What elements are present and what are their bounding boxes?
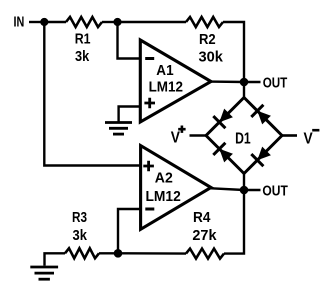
wire R4 up right rail to OUT2 (224, 190, 244, 254)
diode D1b (V- to top vertex) (244, 98, 282, 136)
wire R3 to ground (45, 253, 66, 265)
svg-text:OUT: OUT (263, 75, 288, 91)
svg-text:3k: 3k (73, 228, 88, 244)
wire node A to R1 (44, 21, 66, 23)
resistor R3 (65, 248, 99, 258)
A2 non-inverting (plus) sign (143, 161, 154, 172)
wire A2 inverting input to node C (118, 209, 141, 253)
svg-text:R1: R1 (75, 32, 91, 48)
diode D1d (V- to bottom vertex) (244, 136, 282, 174)
svg-text:R3: R3 (72, 210, 87, 226)
svg-text:IN: IN (14, 15, 25, 31)
wire node B down to A1 inverting input (118, 22, 141, 59)
wire A2 output to node OUT2 (209, 188, 244, 190)
svg-text:LM12: LM12 (149, 79, 183, 95)
resistor R1 (66, 17, 102, 27)
node B: summing junction (113, 18, 121, 26)
svg-text:V: V (304, 130, 313, 147)
wire bridge left vertex to V+ terminal (190, 134, 207, 137)
A2 inverting (minus) sign (145, 208, 154, 211)
svg-text:27k: 27k (192, 228, 217, 244)
node A: input node (40, 18, 48, 26)
wire node B to R2 (118, 21, 187, 23)
node OUT2: lower output node (240, 186, 249, 195)
wire IN to node A (29, 21, 44, 23)
ground symbol at R3 (30, 267, 58, 279)
resistor R2 (186, 17, 223, 27)
node C: lower feedback node (114, 249, 123, 258)
wire R1 to node B (102, 21, 118, 23)
wire node C to R3 (99, 252, 118, 254)
ground symbol at A1 + input (105, 123, 132, 135)
svg-text:LM12: LM12 (146, 189, 181, 205)
svg-text:D1: D1 (235, 130, 251, 147)
diode D1a (top vertex to V+) (206, 98, 244, 136)
svg-text:R2: R2 (199, 32, 216, 48)
svg-text:OUT: OUT (262, 183, 288, 199)
resistor R4 (186, 249, 224, 259)
wire bridge right vertex to V- terminal (282, 134, 297, 137)
wire R2 to right rail down to OUT1 (223, 22, 244, 82)
svg-text:A1: A1 (156, 63, 173, 79)
label V+ (171, 126, 186, 147)
wire A1 + input to ground (119, 107, 141, 122)
label V- (304, 130, 320, 147)
wire OUT2 stub (244, 189, 261, 191)
op-amp A1 LM12 triangle (140, 40, 211, 122)
node OUT1: upper output node (240, 78, 249, 87)
diode D1c (bottom vertex to V+) (206, 136, 244, 174)
A1 inverting (minus) sign (145, 57, 154, 60)
A1 non-inverting (plus) sign (144, 98, 155, 109)
svg-text:3k: 3k (75, 49, 90, 65)
svg-text:V: V (171, 129, 180, 146)
op-amp A2 LM12 triangle (141, 146, 211, 230)
wire bridge bottom vertex to node OUT2 (243, 174, 245, 191)
wire input rail: node A down to A2 + input (44, 22, 140, 166)
svg-text:30k: 30k (199, 50, 224, 66)
svg-text:A2: A2 (155, 171, 173, 187)
wire node C to R4 (118, 252, 186, 255)
wire A1 output to node OUT1 (209, 80, 244, 83)
wire OUT1 stub (244, 81, 261, 83)
svg-text:R4: R4 (193, 210, 210, 226)
wire OUT1 down to bridge top vertex (243, 82, 245, 98)
